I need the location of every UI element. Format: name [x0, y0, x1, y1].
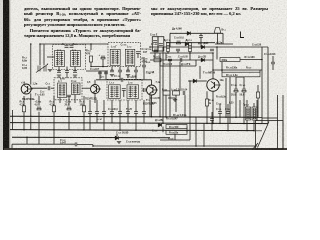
coil L1-7 can [58, 83, 67, 98]
wire varcap link [43, 45, 45, 66]
wire feeder top x39 [38, 96, 40, 106]
ground at D1-10 [117, 142, 121, 144]
capacitor dense row x90 [88, 112, 92, 114]
junction node 11 [243, 123, 245, 125]
wire right rail drop x268 [267, 47, 269, 124]
capacitor C1-17 coupling [136, 52, 140, 54]
wire dense x112 up [111, 100, 113, 112]
wire C1-11 drop [119, 67, 121, 70]
capacitor C1-25 [218, 112, 222, 114]
wire jack drop [217, 33, 219, 44]
shield box of IF filter D [107, 79, 142, 100]
wire bottomnet drop x93 [92, 145, 94, 146]
wire canA1 drop [58, 67, 60, 71]
wire y71 link [86, 70, 108, 72]
wire top rail left drop [169, 33, 171, 47]
junction node 3 [165, 116, 167, 118]
wire Tr2 lead b [253, 120, 255, 131]
wire top rail y33 [170, 32, 223, 34]
resistor R1-52 [220, 58, 240, 62]
capacitor C1-43 right edge [271, 62, 275, 64]
diode D1-8 [193, 79, 196, 83]
resistor R1-46 [205, 99, 208, 106]
wire dense x136 down [135, 113, 137, 130]
capacitor C1-18a [98, 72, 102, 74]
junction node 35 [261, 59, 263, 61]
wire bottom-left net [12, 143, 75, 145]
resistor R1-58 [166, 130, 187, 134]
ground right of varcap [48, 70, 52, 72]
wire T1-3 collector [94, 80, 96, 85]
wire C1-15 down [143, 67, 145, 79]
wire feeder bottom x24 [23, 112, 25, 130]
wire C1-25 down [219, 113, 221, 123]
wire feeder top x24 [23, 96, 25, 106]
wire Tr2 lead a [246, 120, 248, 131]
junction node 25 [195, 145, 197, 147]
IF transformer L1-1 can [110, 49, 120, 65]
capacitor C1-31 below b [65, 71, 69, 73]
wire C1-31 lower lead [66, 72, 68, 78]
resistor at x54 [52, 106, 55, 112]
capacitor dense row x112 [110, 112, 114, 114]
wire dense x90 up [89, 100, 91, 112]
output transformer Tr1-2 winding a [246, 107, 251, 120]
capacitor inside cell a [153, 41, 157, 43]
wire dense x136 up [135, 100, 137, 112]
wire feeder top x84 [83, 96, 85, 106]
wire R1-41 drop [165, 95, 167, 117]
junction node 41 [74, 70, 76, 72]
junction node 2 [159, 116, 161, 118]
resistor R1-57 [166, 125, 187, 129]
ground below C1-30 [57, 75, 61, 77]
wire C1-9 drop [102, 59, 104, 67]
junction node 6 [235, 116, 237, 118]
wire cap to box C [51, 87, 54, 89]
wire x185 drop [184, 95, 186, 117]
wire C1-39 down [235, 92, 237, 117]
wire det rail [150, 52, 213, 54]
wire x200 drop [199, 66, 201, 79]
wire x240 drop [239, 100, 241, 117]
capacitor C1-40 electrolytic [242, 89, 246, 92]
wire C1-43 down [272, 64, 274, 70]
junction node 13 [53, 129, 55, 131]
wire coupling left [96, 79, 121, 81]
capacitor C1-56 below top rail [199, 36, 203, 38]
capacitor electrolytic x69 [67, 107, 71, 110]
capacitor C1-23 bottom net [75, 142, 77, 146]
wire R to box B [91, 66, 108, 68]
wire left edge drop [12, 110, 14, 130]
wire x30.8 bus link [30, 117, 32, 130]
junction node 17 [135, 129, 137, 131]
wire page-edge v1 [277, 95, 279, 149]
wire rail mid y60 [150, 59, 213, 61]
wire x222 drop [221, 62, 223, 71]
wire R1-5 top [90, 44, 92, 50]
capacitor C1-30 below a [57, 71, 61, 73]
wire R1-60 up [257, 85, 259, 92]
capacitor C1-52 on y60 [168, 59, 172, 61]
capacitor dense row x120 [118, 112, 122, 114]
wire dense x120 up [119, 100, 121, 112]
battery cell box b [158, 37, 164, 51]
wire feeder bottom x39 [38, 112, 40, 130]
capacitor electrolytic x39 [37, 107, 41, 110]
diode D1-14 mid rail [185, 42, 188, 46]
capacitor C1-22 base [143, 88, 145, 92]
wire Tr2 top a [246, 100, 248, 107]
body text right column [151, 6, 268, 17]
capacitor C1-50 [176, 49, 180, 51]
capacitor C1-24 [210, 119, 214, 121]
capacitor C1-19 top coupling [121, 78, 123, 82]
wire dense x97 down [96, 113, 98, 123]
capacitor C1-49 electrolytic [154, 49, 158, 52]
capacitor C1-5 base coupling [48, 86, 50, 90]
IF transformer L1-2 can [125, 49, 135, 65]
wire C1-39 up [235, 77, 237, 89]
capacitor C1-12 [126, 70, 130, 72]
wire C1-50 drop [177, 51, 179, 53]
choke Dr1-1 [167, 43, 170, 52]
shield box of input filter B [108, 43, 141, 67]
wire B4 to bottom net [26, 137, 28, 144]
scan noise overlay [0, 0, 1, 1]
wire box C to T3 [82, 87, 90, 89]
wire D1-10 up [116, 134, 118, 136]
wire dense x97 up [96, 100, 98, 112]
coil L1-5 can [55, 51, 65, 67]
wire stub under R pair [160, 139, 190, 141]
wire link y60-y70 a [159, 60, 161, 66]
ground under C1-10 [110, 75, 114, 77]
capacitor C1-15 [142, 65, 146, 67]
wire dense x144 up [143, 100, 145, 112]
scanner gutter light strip [0, 0, 3, 150]
wire dense x104 down [103, 113, 105, 130]
wire cap to T5 base [146, 89, 147, 91]
junction node 30 [212, 52, 214, 54]
wire C1-25 up [219, 104, 221, 112]
junction node 7 [162, 122, 164, 124]
capacitor C1-51 [210, 49, 214, 51]
capacitor C1-13 [134, 70, 138, 72]
capacitor C1-11 [118, 70, 122, 72]
junction node 1 [151, 116, 153, 118]
junction node 12 [23, 129, 25, 131]
wire dense x104 up [103, 100, 105, 112]
wire R pair drop [174, 134, 176, 140]
wire box D to cap [141, 89, 144, 91]
wire row y98 link [168, 97, 175, 99]
wire T1-3 emitter [94, 94, 96, 103]
wire Tr2 top b [253, 103, 255, 107]
capacitor C1-34 [183, 91, 185, 95]
junction node 4 [189, 116, 191, 118]
wire R pair left [162, 127, 164, 133]
wire feeder top x54 [53, 96, 55, 106]
transistor T1-2 [21, 84, 33, 94]
wire bottom net long [93, 145, 257, 147]
wire gnd stub [174, 98, 176, 100]
capacitor C1-18b [104, 72, 108, 74]
wire C1-40 down [243, 92, 245, 124]
wire T1-5 collector [151, 80, 153, 85]
wire into box A [47, 56, 55, 58]
capacitor C1-53 on y60 [180, 58, 182, 62]
resistor at x84 [82, 106, 85, 112]
wire R pair right [186, 127, 188, 133]
capacitor C1-33 in box C [67, 95, 71, 97]
wire C1-15 up [143, 57, 145, 65]
wire x163 drop [162, 47, 164, 123]
wire caps top tie [236, 76, 244, 78]
diode D1-10 small [115, 136, 118, 140]
ground below C1-32 [73, 75, 77, 77]
wire diode left [188, 80, 193, 82]
diode D1-11 on y60 [201, 58, 204, 62]
wire C1-24 up [211, 112, 213, 119]
wire feeder bottom x54 [53, 112, 55, 130]
diode D1-13 top rail [187, 32, 190, 36]
wire rail upper [215, 43, 233, 45]
junction node 42 [149, 46, 151, 48]
junction node 14 [83, 129, 85, 131]
wire C1-24 down [211, 120, 213, 130]
junction node 28 [90, 43, 92, 45]
wire R1-42 drop [175, 95, 177, 112]
wire bus B2 supply [10, 123, 268, 124]
wire stub y66 [160, 65, 196, 67]
wire node A drop [39, 44, 41, 65]
wire dense x90 down [89, 113, 91, 130]
wire link y53-y60 b [165, 53, 167, 60]
wire R1-46 up [206, 91, 208, 99]
wire canA2 drop [66, 67, 68, 71]
body text left column [24, 6, 141, 38]
wire diode to base [197, 80, 207, 82]
wire supply rail top [150, 46, 268, 48]
junction node 21 [253, 130, 255, 132]
circuit schematic [0, 0, 287, 150]
wire T1 collector riser [30, 44, 32, 85]
loudspeaker output box [256, 121, 284, 150]
capacitor dense row x97 [95, 112, 99, 114]
junction node 32 [189, 80, 191, 82]
wire coupling cap drop [137, 53, 139, 58]
capacitor C1-8 on top b [70, 46, 74, 48]
wire x230 drop [229, 77, 231, 123]
junction node 20 [246, 130, 248, 132]
wire bottom-left drop [11, 144, 13, 148]
resistor R1-5 [89, 56, 92, 62]
junction node 34 [221, 69, 223, 71]
capacitor C1-20 between cans [122, 89, 126, 91]
wire link y53-y60 a [154, 53, 156, 58]
wire dense x128 up [127, 100, 129, 112]
wire box C can2 drop [74, 95, 76, 104]
junction node 16 [119, 129, 121, 131]
wire T1-7 collector [212, 53, 214, 79]
bottom page-edge dark line [4, 148, 287, 149]
IF transformer L1-3 can [109, 85, 121, 99]
resistor R1-42 [173, 91, 180, 95]
wire x204 drop [203, 123, 205, 146]
capacitor C1-7 on top a [65, 46, 69, 48]
junction node 44 [189, 52, 191, 54]
IF transformer L1-4 can [127, 85, 139, 99]
wire bus B1 AGC line [10, 116, 262, 117]
junction node 22 [26, 137, 28, 139]
wire feeder bottom x69 [68, 112, 70, 130]
junction node 29 [30, 43, 32, 45]
transistor T1-7 [207, 79, 221, 91]
wire x226 drop [225, 78, 227, 117]
wire x190 lower drop [189, 117, 191, 140]
junction node 10 [219, 123, 221, 125]
wire to output box [262, 117, 278, 119]
wire R1-46 down [206, 106, 208, 123]
wire page-edge v2 [282, 95, 284, 149]
wire box C can1 drop [59, 98, 61, 104]
resistor at x24 [22, 106, 25, 112]
shield box of IF filter C [54, 78, 82, 100]
wire R1-53 left lead [221, 70, 223, 72]
wire can2 tap down [127, 67, 129, 70]
choke Dr1-2 [189, 43, 192, 52]
junction node 38 [111, 69, 113, 71]
wire R1-52 left lead [216, 47, 218, 60]
transistor T1-5 [147, 85, 159, 95]
wire T1-7 emitter [212, 91, 214, 123]
wire bus B4 bias [12, 136, 170, 139]
wire C1-26 up [227, 104, 229, 112]
junction node 9 [212, 123, 214, 125]
ground mid right [173, 100, 177, 102]
resistor R1-41 [163, 91, 170, 95]
wire dense x128 down [127, 113, 129, 123]
junction node 37 [102, 66, 104, 68]
wire feeder bottom x84 [83, 112, 85, 130]
wire C1-56 lead [200, 33, 202, 35]
capacitor dense row x104 [102, 112, 106, 114]
junction node 43 [167, 52, 169, 54]
battery cell box a [152, 37, 158, 51]
junction node 5 [225, 116, 227, 118]
wire feeder top x69 [68, 96, 70, 106]
ground under C1-12 [126, 75, 130, 77]
wire R1-53 right lead [259, 70, 261, 72]
resistor R1-53 long [222, 72, 260, 77]
wire canA3 drop [74, 67, 76, 71]
resistor R1-19 on y60 [154, 58, 161, 62]
capacitor C1-57 pair [177, 41, 181, 44]
wire dense x112 down [111, 113, 113, 123]
wire R1-60 down [257, 98, 259, 118]
wire mid rail y42.7 [166, 42, 215, 44]
diode D1-7 [201, 45, 204, 49]
wire collector supply left [40, 43, 108, 45]
wire C1-13 lower [135, 72, 137, 79]
capacitor C1-9 electrolytic [101, 56, 105, 59]
wire dense x120 down [119, 113, 121, 130]
capacitor dense row x128 [126, 112, 130, 114]
stray pencil diagonal [253, 143, 259, 150]
wire bottom-left net b [77, 144, 93, 146]
junction node 23 [116, 137, 118, 139]
junction node 31 [216, 46, 218, 48]
wire T1 base line [31, 87, 48, 89]
wire link y53-y60 c [189, 53, 191, 60]
wire top rail right drop [222, 33, 224, 44]
junction node 26 [203, 145, 205, 147]
wire Dr1-1 lead [167, 52, 169, 54]
wire C1-26 down [227, 113, 229, 130]
capacitor inside cell b [159, 44, 163, 46]
speaker diagonal [258, 122, 270, 148]
wire right rail drop x262 [261, 47, 263, 124]
wire T1 emitter drop [30, 93, 32, 116]
junction node 33 [212, 69, 214, 71]
transistor T1-3 [91, 85, 102, 94]
coil L1-8 can [72, 83, 81, 95]
wire x39 extended drop [38, 130, 40, 144]
wire C1-20 drop [123, 90, 125, 97]
wire C1-11 lower [119, 72, 121, 79]
wire x180 drop [179, 62, 181, 91]
wire C1-56 lead b [200, 37, 202, 47]
variable capacitor C1-1 [36, 63, 48, 72]
junction node 36 [90, 66, 92, 68]
scanner black bar left edge [3, 0, 10, 150]
wire x170 long drop [169, 60, 171, 117]
wire x160 drop [159, 53, 161, 117]
wire C1-13 drop [135, 67, 137, 70]
capacitor C1-26 [226, 112, 230, 114]
output transformer Tr1-2 winding b [252, 107, 257, 120]
coil L1-6 can [71, 51, 81, 67]
junction node 8 [206, 123, 208, 125]
wire C1-43 up [272, 56, 274, 62]
capacitor dense row x144 [142, 112, 146, 114]
resistor R1-60 small [256, 92, 259, 98]
wire C1-18b leads [105, 71, 107, 79]
junction node 27 [39, 43, 41, 45]
wire can1 tap down [111, 67, 113, 70]
wire R1-52 to right [240, 59, 262, 61]
wire T1-5 emitter [151, 95, 153, 117]
capacitor C1-10 [110, 70, 114, 72]
wire coupling right [124, 79, 152, 81]
capacitor C1-32 below c [73, 71, 77, 73]
wire x257 up from box [256, 100, 258, 121]
headphone jack Tlf [214, 28, 221, 34]
wire x54 extended drop [53, 130, 55, 144]
diode D1-9 [158, 123, 161, 127]
wire bus B3 common [10, 130, 262, 131]
capacitor dense row x136 [134, 112, 138, 114]
wire corner bracket at switch [241, 32, 245, 38]
wire link y66 drop [195, 60, 197, 66]
wire C1-18a leads [99, 71, 101, 79]
junction node 18 [211, 130, 213, 132]
wire R1-5 bottom [90, 62, 92, 67]
junction node 24 [92, 145, 94, 147]
capacitor C1-39 electrolytic [234, 89, 238, 92]
